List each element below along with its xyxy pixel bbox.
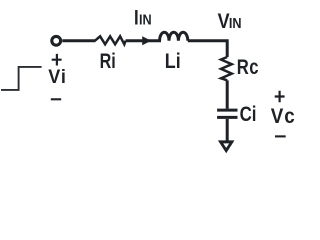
node VIN label [218, 9, 242, 33]
wire [188, 41, 227, 57]
wire [226, 119, 229, 142]
svg-text:I: I [134, 6, 139, 29]
capacitor C1 Ci top plate [217, 109, 237, 112]
label plus Vi [52, 54, 62, 66]
label minus Vi [51, 98, 61, 100]
capacitor C1 Ci bottom plate [217, 116, 237, 119]
label minus Vc [275, 135, 286, 137]
label IIN [134, 6, 152, 29]
svg-text:IN: IN [139, 12, 152, 28]
svg-text:Vc: Vc [271, 105, 296, 128]
svg-text:Ci: Ci [240, 103, 257, 126]
wire [126, 39, 161, 42]
wire [226, 80, 229, 108]
svg-text:Li: Li [165, 50, 181, 74]
resistor R2 Rc [221, 57, 232, 80]
svg-text:Rc: Rc [237, 56, 259, 79]
svg-text:IN: IN [229, 15, 242, 31]
svg-text:Vi: Vi [48, 65, 67, 87]
step input waveform [1, 67, 42, 90]
inductor L1 Li [160, 32, 188, 41]
svg-text:Ri: Ri [100, 49, 116, 73]
wire [62, 39, 95, 42]
resistor R1 Ri [95, 36, 126, 44]
ground [218, 140, 235, 153]
label plus Vc [275, 91, 285, 103]
terminal node [52, 36, 61, 45]
current arrow IIN [142, 36, 151, 45]
